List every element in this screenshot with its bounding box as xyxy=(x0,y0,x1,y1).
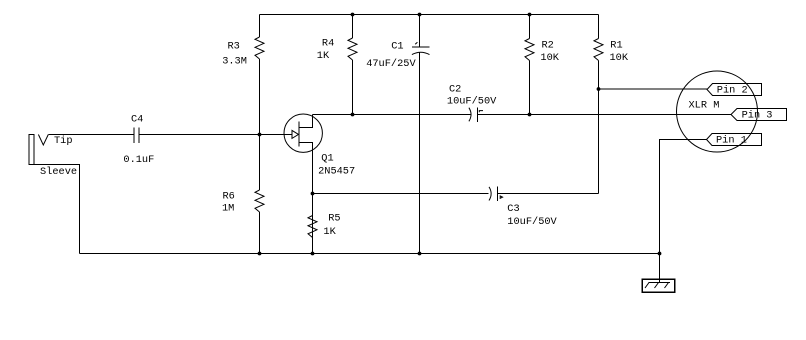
wire: V+ top rail xyxy=(260,14,599,16)
svg-text:Sleeve: Sleeve xyxy=(40,166,77,178)
svg-text:R1: R1 xyxy=(610,40,622,52)
svg-text:2N5457: 2N5457 xyxy=(318,166,355,178)
svg-text:C1: C1 xyxy=(391,41,403,53)
capacitor C3 xyxy=(489,187,503,202)
svg-text:R6: R6 xyxy=(223,191,235,203)
wire: bottom ground rail xyxy=(80,253,660,255)
wire: Q1 source column to bottom rail xyxy=(312,143,314,254)
junction: gate row / R3-R6 column xyxy=(258,133,262,137)
svg-text:R4: R4 xyxy=(322,37,334,49)
wire: tip to C4 xyxy=(48,134,134,136)
wire: R1 to XLR pin 2 xyxy=(599,88,708,90)
svg-text:3.3M: 3.3M xyxy=(222,56,247,68)
svg-text:10uF/50V: 10uF/50V xyxy=(507,216,557,228)
svg-text:Pin 3: Pin 3 xyxy=(742,109,773,121)
svg-text:47uF/25V: 47uF/25V xyxy=(366,58,416,70)
junction: bottom rail / R6 xyxy=(258,252,262,256)
svg-text:C4: C4 xyxy=(131,114,143,126)
XLR pin 1 terminal xyxy=(707,134,762,146)
capacitor C1 xyxy=(412,15,430,254)
junction: C3 row / source column xyxy=(311,192,315,196)
wire: C3 to R1 column xyxy=(497,193,598,195)
XLR connector shell xyxy=(677,71,758,152)
svg-text:Pin 2: Pin 2 xyxy=(717,84,748,96)
svg-text:C2: C2 xyxy=(449,83,461,95)
svg-text:Q1: Q1 xyxy=(321,153,333,165)
XLR pin 2 terminal xyxy=(707,84,762,96)
capacitor C4 xyxy=(134,128,139,143)
resistor R5 xyxy=(308,216,317,238)
svg-text:C3: C3 xyxy=(507,203,519,215)
resistor R1 xyxy=(594,15,603,194)
svg-text:10K: 10K xyxy=(610,52,629,64)
tip contact V xyxy=(38,135,48,146)
junction: pin2 row / R1 xyxy=(597,87,601,91)
resistor R4 xyxy=(348,15,357,115)
wire: C2 to XLR pin 3 xyxy=(477,114,731,116)
junction: pin3 row / R2 xyxy=(528,113,532,117)
wire: drain row Q1 to C2 xyxy=(313,114,471,116)
svg-text:1M: 1M xyxy=(222,203,234,215)
junction: drain row / R4 xyxy=(351,113,355,117)
svg-text:Pin 1: Pin 1 xyxy=(716,134,747,146)
svg-text:R5: R5 xyxy=(328,213,340,225)
junction: bottom rail / C1 xyxy=(418,252,422,256)
ground symbol (chassis) xyxy=(642,279,675,292)
capacitor C2 xyxy=(469,107,483,122)
junction: bottom rail / ground drop xyxy=(658,252,662,256)
svg-text:1K: 1K xyxy=(317,50,330,62)
resistor R6 xyxy=(255,135,264,254)
wire: sleeve to bottom rail xyxy=(34,165,79,254)
svg-text:Tip: Tip xyxy=(54,135,73,147)
junction: bottom rail / R5 xyxy=(311,252,315,256)
wire: XLR pin1 to ground xyxy=(660,140,707,283)
svg-text:0.1uF: 0.1uF xyxy=(123,154,154,166)
resistor R2 xyxy=(525,15,534,115)
svg-text:XLR M: XLR M xyxy=(689,100,720,112)
XLR pin 3 terminal xyxy=(731,109,787,121)
svg-text:R2: R2 xyxy=(542,40,554,52)
wire: source to C3 xyxy=(313,193,489,195)
svg-text:1K: 1K xyxy=(323,226,336,238)
svg-text:R3: R3 xyxy=(228,41,240,53)
resistor R3 xyxy=(255,15,264,135)
transistor Q1 (N-JFET 2N5457) xyxy=(284,114,322,152)
wire: gate row from C4 to Q1 xyxy=(139,134,292,136)
junction: top rail / R2 xyxy=(528,13,532,17)
input jack plug body xyxy=(29,135,48,165)
svg-text:10K: 10K xyxy=(540,52,559,64)
junction: top rail / C1 xyxy=(418,13,422,17)
junction: top rail / R4 xyxy=(351,13,355,17)
svg-text:10uF/50V: 10uF/50V xyxy=(447,96,497,108)
